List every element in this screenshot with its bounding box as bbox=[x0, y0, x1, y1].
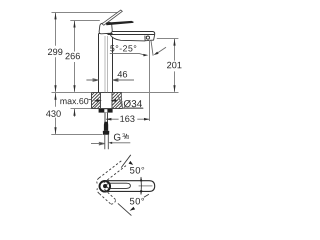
label G bbox=[114, 134, 120, 141]
upper 50 leader line bbox=[121, 155, 131, 168]
dashed handle position lower bbox=[97, 188, 116, 204]
hose upper fitting bbox=[104, 122, 108, 131]
label 299 bbox=[48, 49, 62, 56]
label diameter 34 bbox=[124, 100, 142, 107]
dimension 46 right arrow bbox=[113, 79, 134, 82]
arrow 299 down bbox=[54, 85, 56, 92]
aerator circle bbox=[146, 36, 149, 39]
lever raised outline bbox=[102, 10, 122, 25]
label 50 lower bbox=[130, 198, 144, 205]
label 430 bbox=[46, 110, 61, 117]
label 46 bbox=[118, 71, 128, 78]
hose nut bbox=[103, 131, 110, 135]
faucet cartridge inner lines bbox=[105, 36, 108, 92]
lower 50 leader tail bbox=[144, 194, 149, 197]
lower 50 leader arrow bbox=[130, 207, 136, 211]
label 8 subscript bbox=[126, 135, 129, 139]
lever handle dark bbox=[106, 21, 134, 25]
angle 5-25 arrow left bbox=[143, 54, 148, 57]
angle 5-25 arrow right bbox=[154, 52, 159, 55]
faucet body right edge bbox=[112, 37, 114, 92]
extension line spout tip vertical bbox=[149, 40, 151, 121]
dimension line 430 vertical bbox=[55, 93, 57, 134]
hose arrow left bbox=[91, 142, 105, 145]
extension line bottom 430 bbox=[51, 134, 102, 136]
dimension line 266 vertical bbox=[74, 21, 76, 92]
dimension line max60 below deck bbox=[74, 109, 76, 117]
arrow 163 right bbox=[144, 118, 149, 121]
arrow 430 down bbox=[54, 127, 56, 134]
extension line top 266 bbox=[70, 20, 100, 22]
swivel arc arrow down bbox=[140, 190, 142, 195]
extension line 201 top bbox=[157, 38, 179, 40]
bottom view pivot dot bbox=[103, 184, 107, 188]
deck hole right edge bbox=[111, 93, 113, 109]
leader max60 dash bbox=[88, 99, 92, 101]
deck right break edge bbox=[121, 93, 122, 108]
deck top line bbox=[52, 92, 179, 94]
angle 5-25 arrow right tail bbox=[158, 47, 166, 53]
diameter 34 arrow right bbox=[112, 100, 117, 102]
arrow 201 down bbox=[173, 85, 175, 92]
arrow 430 up bbox=[54, 93, 56, 100]
dashed handle position upper bbox=[97, 161, 126, 184]
dimension line 201 vertical bbox=[174, 39, 176, 92]
swivel arc arrow up bbox=[140, 177, 142, 182]
aerator pod bbox=[145, 35, 155, 40]
label 50 upper bbox=[130, 167, 144, 174]
arrow 201 up bbox=[173, 39, 175, 46]
label 5-25 degrees bbox=[110, 45, 136, 51]
arrow 163 left bbox=[106, 118, 111, 121]
label 163 bbox=[120, 115, 134, 122]
label 201 bbox=[167, 62, 181, 69]
stream line bbox=[151, 40, 153, 56]
label 3 superscript bbox=[122, 133, 125, 137]
spout bar bottom line bbox=[108, 34, 155, 36]
faucet body top line bbox=[99, 33, 113, 35]
spout underside curve bbox=[110, 35, 144, 41]
deck bottom line bbox=[71, 108, 144, 110]
deck left edge bbox=[91, 93, 93, 109]
diameter 34 arrow left bbox=[95, 100, 101, 102]
swivel arc vertical bbox=[140, 177, 142, 194]
bottom view pivot circle bbox=[100, 181, 111, 192]
hose arrow right G38 bbox=[108, 142, 112, 144]
deck bottom edge dark bbox=[92, 108, 123, 110]
bottom view handle pill bbox=[105, 181, 155, 192]
dimension line 299 vertical bbox=[55, 13, 57, 92]
fraction slash G38 bbox=[125, 134, 127, 139]
shank nut gap bbox=[104, 109, 107, 112]
lever boss bbox=[99, 22, 112, 33]
deck hatch right block bbox=[112, 92, 123, 109]
upper 50 leader arrow bbox=[129, 161, 134, 165]
deck hole left edge bbox=[100, 93, 102, 109]
deck hatch left block bbox=[92, 92, 101, 109]
threaded stud bbox=[105, 113, 108, 122]
shank nut dark bbox=[99, 109, 113, 113]
deck top edge dark bbox=[92, 92, 123, 94]
arrow 266 up bbox=[73, 21, 75, 28]
arrow 299 up bbox=[54, 12, 56, 19]
lower 50 leader line bbox=[118, 203, 131, 215]
G38 underline leader bbox=[112, 142, 130, 144]
hose tube bbox=[105, 135, 109, 150]
label 266 bbox=[65, 53, 79, 60]
spout top bar bbox=[109, 32, 155, 36]
leader diameter 34 bbox=[118, 95, 143, 108]
extension line top 299 bbox=[52, 12, 120, 14]
bottom view centerline tick bbox=[139, 185, 153, 187]
bottom view inner pill bbox=[107, 183, 131, 188]
arrow max60 up bbox=[73, 109, 75, 116]
dimension 46 left arrow bbox=[86, 79, 98, 82]
dimension line 163 bbox=[106, 118, 149, 120]
arrow 266 down bbox=[73, 85, 75, 92]
angle 5-25 leader underline bbox=[110, 54, 144, 55]
label max.60 bbox=[60, 98, 88, 104]
faucet body left edge bbox=[98, 34, 100, 93]
